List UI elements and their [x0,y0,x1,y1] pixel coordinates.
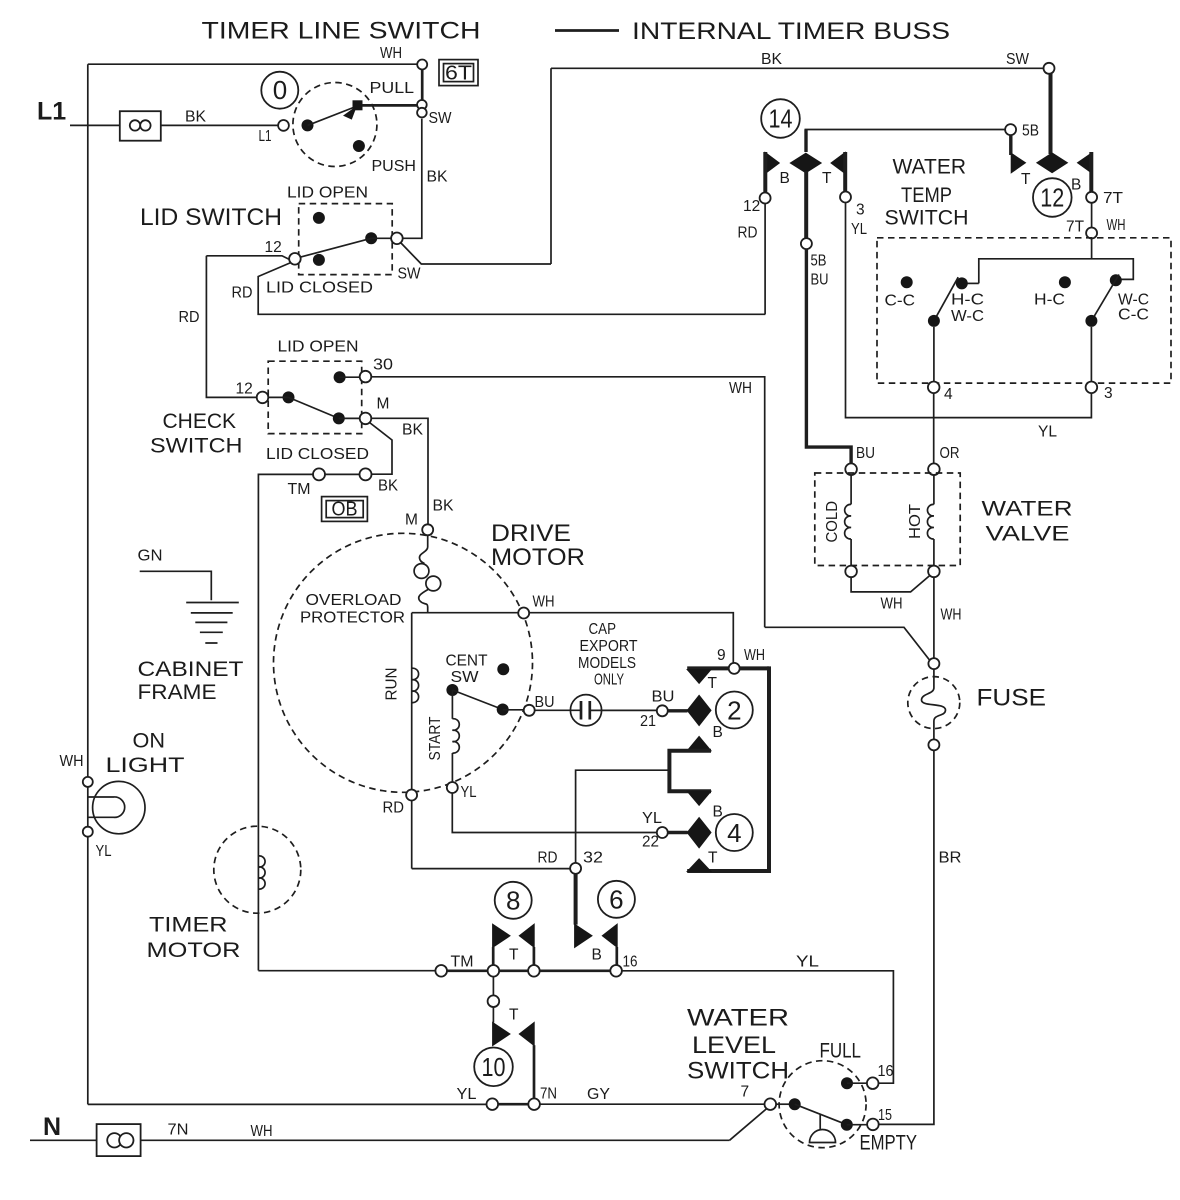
wire start coil to YL terminal [451,753,453,782]
svg-text:MODELS: MODELS [578,655,636,672]
svg-text:15: 15 [878,1107,892,1124]
wire L1 feed [70,124,278,126]
terminal YL on-light [83,827,93,837]
svg-text:EMPTY: EMPTY [860,1132,918,1155]
wire 7T to 7T lower [1091,203,1093,228]
svg-text:YL: YL [642,810,662,827]
terminal 16 cam [610,965,622,977]
svg-text:B: B [713,804,723,821]
terminal 8 right [528,965,540,977]
svg-text:12: 12 [265,239,282,256]
svg-text:2: 2 [727,696,741,726]
svg-text:CAP: CAP [589,621,617,638]
wire to 16 [540,969,611,972]
terminal BU valve [845,463,857,475]
cam 8 left triangle [493,924,510,947]
wire left bus vertical (WH side) [87,64,89,1104]
svg-text:T: T [509,1007,519,1024]
svg-text:PULL: PULL [370,80,415,97]
svg-text:T: T [708,850,718,867]
terminal YL motor [447,782,458,793]
wire cam10 right down to 7N [533,1045,536,1098]
terminal hot bottom [928,566,940,578]
circled number 4 [716,814,753,851]
svg-text:BK: BK [761,51,783,68]
wire WH from 30 to right riser [371,377,764,628]
svg-text:0: 0 [273,75,287,105]
wire junction pair [499,969,528,972]
coil COLD [845,504,851,539]
contact PULL square [353,101,362,110]
connector TM-BK pair [360,468,372,480]
svg-text:COLD: COLD [824,501,841,543]
wire cam12 B to 7T [1089,152,1093,192]
wire pivot down through start coil [451,690,453,719]
cam 8 right triangle [519,924,534,947]
cam mid up triangle [687,736,711,750]
svg-text:VALVE: VALVE [986,523,1070,546]
svg-text:TIMER: TIMER [149,914,228,937]
wire 22 to diamond 4 [668,831,688,834]
wire TM to timer motor drop [258,474,313,970]
terminal 21 [657,705,668,716]
wire arm1 pivot to terminal 4 [933,327,935,382]
cam mid step [669,751,711,792]
terminal RD motor [406,790,417,801]
wire M to motor BK [371,418,428,524]
wire timer motor to TM [258,970,435,972]
wire terminal to cam10 [492,1007,494,1023]
terminal 12 cam14 [760,193,771,204]
svg-text:LID SWITCH: LID SWITCH [140,204,282,231]
svg-text:INTERNAL TIMER BUSS: INTERNAL TIMER BUSS [632,18,950,45]
svg-text:10: 10 [482,1052,506,1082]
terminal 7 [765,1098,777,1110]
fuse element [922,669,946,739]
cam 14 right triangle T [831,152,845,173]
svg-text:START: START [427,716,444,760]
overload protector squiggle [419,535,427,563]
svg-text:C-C: C-C [1118,307,1149,324]
svg-text:RD: RD [232,285,253,302]
svg-text:WH: WH [251,1123,273,1140]
coil timer motor [258,856,265,889]
terminal 3 temp switch [1086,382,1098,394]
wire 32 to cam6 [574,874,578,925]
svg-text:WATER: WATER [893,156,967,179]
on light bulb [93,781,145,833]
svg-text:T: T [1021,171,1031,188]
svg-text:6T: 6T [445,63,472,85]
terminal TM [435,965,447,977]
cam 6 left triangle [575,924,592,947]
terminal fuse top [928,658,939,669]
svg-text:B: B [780,170,790,187]
svg-text:T: T [822,170,832,187]
wire M diagonal to TM connector [370,423,393,475]
svg-text:SWITCH: SWITCH [687,1058,789,1085]
wire TM to junction [447,969,488,972]
water temp switch dashed box [877,238,1171,383]
svg-text:PUSH: PUSH [372,158,417,175]
svg-text:C-C: C-C [885,293,916,310]
wire YL long to water level [622,971,894,1083]
svg-text:SW: SW [451,669,479,686]
svg-text:WH: WH [729,380,752,397]
cam 4 diamond [687,818,711,848]
terminal 32 [570,863,581,874]
wire terminal 12 down to RD run [764,204,766,315]
box OB [322,497,368,522]
svg-text:SW: SW [429,110,452,127]
circled number 12 [1033,178,1072,217]
svg-text:T: T [708,675,718,692]
svg-text:4: 4 [944,386,953,403]
drive motor dashed circle [274,533,533,792]
wire YL from 3 to temp switch [846,203,1092,418]
svg-text:BK: BK [185,109,207,126]
svg-text:WATER: WATER [982,498,1073,521]
svg-text:16: 16 [623,954,638,971]
svg-text:YL: YL [96,843,112,860]
svg-text:LIGHT: LIGHT [106,754,185,777]
wire valve common WH [851,576,930,592]
terminal 16 water level [867,1077,879,1089]
wire EMPTY to 15 [847,1124,867,1126]
terminal 7T upper [1086,192,1097,203]
wire internal timer buss BK [551,67,1044,69]
svg-text:30: 30 [373,357,393,374]
svg-text:WH: WH [380,45,402,62]
svg-text:5B: 5B [811,253,827,270]
svg-text:BK: BK [378,478,399,495]
svg-text:WH: WH [744,647,765,664]
water level arm [795,1104,847,1125]
pressure dome bell [810,1114,836,1143]
timer line switch rotary dashed circle [293,83,377,167]
pivot arm1 dot [928,315,940,327]
svg-text:HOT: HOT [907,503,924,539]
wire hot terminal down to fuse [933,577,935,658]
cam 14 left triangle B [765,152,779,173]
cam 4 bottom triangle [687,859,711,872]
ground cabinet frame [140,571,212,600]
wire lid SW diagonal to BK riser [401,243,552,265]
cam 2 diamond [687,695,711,725]
svg-text:BU: BU [856,445,875,462]
contact lid-closed dot (check) [333,412,345,424]
wire BR from fuse down [879,750,934,1124]
wire mid dot to SW terminal [371,237,391,239]
terminal M drive motor [422,524,433,535]
wire FULL to 16 [847,1082,867,1084]
contact H-C dot right group [1059,276,1071,288]
svg-text:SW: SW [1006,51,1029,68]
connector SW pair circles [417,100,427,110]
wire cam14 B to terminal 12 [763,152,767,194]
wire WH terminal to SW connector [421,70,424,102]
terminal 7N [528,1098,540,1110]
wire capacitor to 21 [590,709,657,711]
contact H-C dot (arm1 target) [956,277,968,289]
fuse dashed circle [908,677,960,729]
terminal BU motor [524,705,535,716]
svg-text:5B: 5B [1022,123,1039,140]
wire BK down from SW [403,119,422,239]
wire arm2 pivot to terminal 3 [1090,327,1092,382]
svg-text:MOTOR: MOTOR [491,544,585,571]
terminal 9 on cam block [729,663,740,674]
terminal 15 [867,1119,879,1131]
terminal 22 [657,827,668,838]
node common contact dot [302,119,314,131]
wire RD riser left [206,256,257,398]
coil RUN [412,668,419,702]
circled number 6 [598,881,635,918]
wire 7 diagonal to N [730,1109,767,1141]
svg-text:OR: OR [940,445,960,462]
svg-text:BK: BK [427,169,449,186]
contact C-C dot [901,276,913,288]
timer motor dashed circle [214,826,301,913]
cam 2 top triangle T [687,670,711,684]
pivot cent-sw dot [446,684,458,696]
wire 7T into temp switch [979,239,1134,284]
svg-text:PROTECTOR: PROTECTOR [300,610,405,627]
svg-text:TM: TM [288,481,311,498]
svg-text:YL: YL [1038,424,1057,441]
svg-text:22: 22 [642,834,659,851]
check switch dashed box [268,361,362,433]
wire BK riser up to timer buss [550,68,552,264]
cam block 2-4 top line [687,666,769,670]
svg-text:BU: BU [535,694,555,711]
svg-text:ONLY: ONLY [594,672,624,689]
wire cam14 T to terminal 3 [843,152,847,192]
water level switch dashed circle [779,1061,866,1148]
wire N line [30,1139,730,1141]
wire junction down [492,977,494,996]
terminal WH on-light [83,777,93,787]
wire GY to water level 7 [540,1103,765,1105]
svg-text:12: 12 [236,381,253,398]
wire motor left side [411,613,413,869]
coil HOT [927,504,933,539]
svg-text:L1: L1 [259,128,272,145]
terminal 12 check switch [257,392,269,404]
svg-text:N: N [43,1113,61,1141]
svg-text:RD: RD [383,800,405,817]
svg-text:SW: SW [398,266,421,283]
terminal cold bottom [845,566,857,578]
terminal 3 cam14 [840,192,851,203]
svg-text:M: M [377,396,390,413]
svg-text:9: 9 [717,647,726,664]
svg-text:GY: GY [587,1086,610,1103]
svg-text:LID OPEN: LID OPEN [278,339,359,356]
wire 7 to pivot [776,1103,789,1105]
wire 12 to contact dot [268,396,288,398]
svg-text:MOTOR: MOTOR [147,939,241,962]
svg-text:OVERLOAD: OVERLOAD [306,592,402,609]
contact FULL dot [841,1077,853,1089]
switch arm check switch [289,397,339,418]
wire PULL to SW thick [362,104,417,107]
svg-text:3: 3 [1104,385,1113,402]
terminal WH of timer line switch [417,60,427,70]
svg-text:6: 6 [609,885,623,915]
wire hot coil to bottom terminal [933,539,935,566]
terminal OR valve [928,463,940,475]
wire BU into cold coil [850,475,852,504]
terminal 30 check switch [360,371,372,383]
terminal mid 10 [488,995,500,1007]
svg-text:SWITCH: SWITCH [885,207,969,230]
wire lower contact to BU [503,709,524,711]
svg-text:H-C: H-C [951,292,984,309]
contact EMPTY dot [841,1119,853,1131]
contact PUSH dot [353,140,365,152]
cam mid down triangle [687,791,711,805]
svg-text:14: 14 [769,104,793,134]
node mid contact dot [365,232,377,244]
terminal SW buss [1044,63,1055,74]
switch arm to PULL with arrowhead [308,107,357,126]
wire OR into hot coil [933,475,935,504]
svg-text:TIMER LINE SWITCH: TIMER LINE SWITCH [202,18,481,45]
svg-text:B: B [713,724,723,741]
svg-text:7N: 7N [168,1122,189,1139]
switch arm lid switch [300,238,371,257]
cam 14 diamond [790,153,821,173]
contact check-12 dot [283,391,295,403]
cam block bottom line [687,869,771,873]
wire contact to M [339,417,360,419]
temp arm 1 [934,277,958,321]
svg-text:RUN: RUN [384,668,401,701]
svg-text:GN: GN [138,548,163,565]
wire YL to 22 [452,793,657,833]
svg-text:T: T [509,947,519,964]
wire 5B terminal to cam12 triangle [1009,135,1012,155]
svg-text:LID OPEN: LID OPEN [287,185,368,202]
svg-text:12: 12 [1040,183,1064,213]
svg-text:WATER: WATER [687,1005,789,1032]
terminal WH motor [518,608,529,619]
wire branch to H-C contact [967,282,979,284]
svg-text:FUSE: FUSE [977,685,1047,712]
svg-text:OB: OB [332,499,358,521]
terminal 5B [1005,124,1016,135]
wire cam14 diamond to 5B-BU [804,171,808,239]
svg-text:YL: YL [796,954,819,971]
wire cam8 left down [492,947,495,965]
svg-text:B: B [592,947,602,964]
cam 10 right triangle [519,1022,534,1045]
connector on N line [97,1124,141,1156]
svg-text:8: 8 [506,886,520,916]
svg-text:12: 12 [743,198,760,215]
wire WH run to fuse diagonal [765,627,930,660]
svg-text:TM: TM [451,954,474,971]
pivot water level dot [789,1098,801,1110]
svg-text:M: M [405,512,418,529]
wire 4 to OR terminal [933,393,935,463]
terminal 5B-BU [801,238,812,249]
svg-text:RD: RD [538,850,558,867]
svg-text:LEVEL: LEVEL [692,1032,776,1059]
svg-text:4: 4 [727,818,741,848]
circled number 2 [716,692,753,729]
terminal 12 lid switch [289,253,301,265]
svg-text:7T: 7T [1103,190,1124,207]
wire top WH run to terminal [88,63,418,65]
contact check-open dot [334,371,346,383]
svg-text:TEMP: TEMP [901,184,952,207]
svg-text:BK: BK [433,498,455,515]
wire lid 12 to left RD riser [206,256,289,260]
contact cent-sw upper dot [497,663,509,675]
cam block right side [767,666,771,873]
svg-text:B: B [1071,177,1081,194]
lower bus left loop [88,1103,487,1105]
svg-text:16: 16 [878,1063,894,1080]
contact lid-closed dot [313,254,325,266]
svg-text:CENT: CENT [446,653,489,670]
wire cam6 right down to 16 [615,947,618,965]
svg-text:L1: L1 [37,98,66,126]
wire YL-7N pair [498,1103,528,1106]
svg-text:WH: WH [60,753,84,770]
wire 5B link from cam14 diamond [804,130,807,153]
svg-text:BK: BK [402,422,424,439]
svg-text:CABINET: CABINET [138,658,244,681]
cam 10 left triangle [493,1022,510,1045]
lid switch dashed box [299,204,393,275]
svg-text:32: 32 [583,850,603,867]
svg-text:WH: WH [1107,217,1126,234]
svg-text:FULL: FULL [820,1040,862,1063]
terminal 4 temp switch [928,382,940,394]
terminal YL bottom [487,1098,499,1110]
svg-text:BU: BU [811,272,829,289]
svg-text:LID CLOSED: LID CLOSED [266,446,369,463]
connector on L1 line [120,111,161,141]
svg-text:DRIVE: DRIVE [491,520,571,547]
cam 12 left triangle T [1011,153,1025,173]
svg-text:WH: WH [881,596,903,613]
temp arm 2 [1091,275,1119,321]
water valve dashed box [815,473,960,566]
circled number 8 [495,882,532,919]
svg-text:7T: 7T [1066,219,1085,236]
wire open dot to 30 [340,376,360,378]
svg-text:WH: WH [941,607,962,624]
svg-text:7: 7 [741,1084,750,1101]
wire 32 junction to cam step [576,770,668,863]
svg-text:YL: YL [457,1086,477,1103]
contact W-C dot (arm2 target) [1110,274,1122,286]
svg-text:3: 3 [856,202,865,219]
wire BU to capacitor [535,709,581,711]
coil START [452,719,459,753]
contact lid-open dot [313,212,325,224]
svg-text:CHECK: CHECK [163,410,237,433]
svg-text:FRAME: FRAME [138,681,217,704]
wire lid 12 diagonal to RD run [258,263,765,315]
svg-text:YL: YL [851,221,867,238]
cent-sw arm [452,690,502,710]
